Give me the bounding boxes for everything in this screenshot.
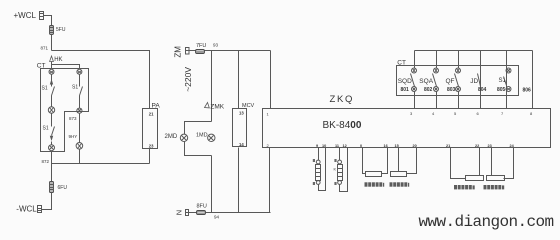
svg-text:20: 20	[413, 144, 417, 148]
sensor 3 (pins 21-22)	[451, 148, 484, 190]
lamp 9HY	[69, 134, 83, 149]
svg-text:801: 801	[401, 87, 410, 93]
contactor coil MCV	[233, 51, 255, 213]
svg-text:16: 16	[384, 144, 388, 148]
switch S1 right	[72, 84, 83, 95]
controller ZKQ BK-8400	[263, 94, 551, 148]
svg-text:ZKQ: ZKQ	[330, 94, 355, 105]
terminal contact (bottom of left branch)	[49, 145, 55, 151]
svg-text:5FU: 5FU	[56, 27, 66, 33]
lamp 2MD	[165, 134, 188, 141]
svg-text:S1: S1	[72, 84, 78, 90]
svg-text:14: 14	[239, 142, 244, 147]
fuse 6FU	[50, 182, 68, 193]
svg-text:2MD: 2MD	[165, 134, 178, 140]
wire	[42, 193, 52, 210]
wire (branch to right contact)	[52, 65, 80, 70]
svg-text:11: 11	[335, 144, 339, 148]
bottom pin numbers of ZKQ	[316, 144, 515, 148]
svg-text:21: 21	[446, 144, 450, 148]
wire	[79, 114, 81, 143]
svg-text:15: 15	[395, 144, 399, 148]
svg-text:13: 13	[239, 110, 244, 115]
wire	[189, 50, 271, 52]
wire	[51, 151, 53, 182]
wire	[52, 51, 150, 109]
svg-text:+WCL: +WCL	[14, 11, 37, 20]
svg-text:9: 9	[316, 144, 318, 148]
svg-text:8FU: 8FU	[197, 203, 207, 209]
sensor 1 (pins 17-16)	[363, 148, 388, 187]
svg-text:872: 872	[42, 159, 50, 164]
wire	[44, 16, 52, 26]
svg-text:S1: S1	[43, 126, 49, 132]
svg-text:23: 23	[488, 144, 492, 148]
terminal -WCL	[16, 205, 41, 214]
contact JD	[470, 51, 486, 109]
svg-text:21: 21	[149, 112, 154, 117]
svg-text:9HY: 9HY	[69, 134, 78, 139]
wire	[149, 149, 151, 164]
wire	[211, 156, 213, 213]
svg-text:873: 873	[69, 116, 77, 121]
fuse 5FU	[50, 26, 66, 35]
sensor 4 (pins 23-24)	[484, 148, 514, 190]
lamp (left branch)	[48, 107, 54, 113]
svg-text:-WCL: -WCL	[16, 205, 37, 214]
contact S1	[497, 51, 511, 109]
svg-text:QF: QF	[446, 78, 455, 85]
terminal +WCL	[14, 11, 44, 20]
wire (pin2 to N bus)	[269, 148, 271, 213]
wire	[51, 96, 53, 107]
connector arrow ZMK	[205, 103, 225, 111]
wire	[211, 51, 213, 122]
svg-text:HK: HK	[54, 57, 62, 63]
svg-text:ZMK: ZMK	[210, 103, 224, 110]
relay box CT	[397, 59, 519, 95]
sensor 2 (pins 15-20)	[390, 148, 417, 187]
contact QF	[446, 51, 461, 109]
fuse 8FU	[197, 203, 207, 214]
plug arrow down	[50, 136, 53, 141]
switch box CT (L-shaped)	[37, 62, 89, 151]
plug arrow up	[50, 79, 53, 85]
svg-text:22: 22	[475, 144, 479, 148]
terminal N	[174, 210, 189, 216]
svg-text:SQA: SQA	[419, 78, 433, 85]
svg-text:12: 12	[343, 144, 347, 148]
fuse 7FU	[196, 43, 207, 54]
connector arrow HK	[50, 56, 63, 69]
contact SQA	[419, 51, 438, 109]
wire N bus	[190, 212, 271, 214]
wire	[270, 51, 272, 109]
contact SQD	[398, 51, 417, 109]
svg-text:0: 0	[360, 144, 362, 148]
potentiometer (pins 9-10)	[313, 148, 326, 191]
svg-text:N: N	[174, 210, 183, 215]
terminal contact (bottom of right branch)	[77, 108, 82, 113]
wire	[51, 75, 53, 87]
svg-text:10: 10	[322, 144, 326, 148]
svg-text:1MD: 1MD	[196, 132, 208, 138]
svg-text:802: 802	[424, 87, 433, 93]
wire bus 872	[52, 163, 150, 165]
svg-text:23: 23	[149, 143, 154, 148]
svg-text:871: 871	[41, 45, 49, 50]
top pin numbers of ZKQ	[410, 111, 533, 116]
ammeter PA	[143, 102, 161, 148]
potentiometer (pins 11-12)	[334, 148, 348, 192]
wire	[79, 150, 81, 164]
svg-text:www.diangon.com: www.diangon.com	[419, 213, 554, 231]
svg-text:ZM: ZM	[173, 46, 182, 58]
lamp loop wires	[185, 122, 212, 135]
terminal contact (top of left branch)	[49, 69, 54, 74]
svg-text:805: 805	[497, 87, 506, 93]
svg-text:BK-8400: BK-8400	[323, 120, 362, 131]
wire	[51, 142, 53, 145]
svg-text:93: 93	[213, 43, 219, 48]
wire	[51, 35, 53, 51]
terminal contact (top of right branch)	[77, 69, 82, 74]
svg-text:~220V: ~220V	[183, 67, 193, 92]
svg-text:JD: JD	[470, 78, 478, 85]
svg-text:6FU: 6FU	[58, 185, 68, 191]
wire bus (relay common 806)	[415, 50, 533, 52]
switch S1 lower	[43, 126, 55, 136]
svg-text:804: 804	[478, 87, 487, 93]
svg-text:SQD: SQD	[398, 78, 412, 85]
wire	[532, 51, 534, 109]
lamp 1MD	[196, 132, 215, 141]
svg-text:S1: S1	[42, 86, 48, 92]
switch S1 upper	[42, 86, 55, 96]
terminal ZM	[173, 46, 189, 58]
wire	[79, 75, 81, 87]
svg-text:806: 806	[523, 87, 532, 93]
wire	[79, 96, 81, 109]
svg-text:803: 803	[447, 87, 456, 93]
wire	[51, 114, 53, 127]
svg-text:7FU: 7FU	[196, 43, 206, 49]
svg-text:94: 94	[214, 214, 220, 219]
